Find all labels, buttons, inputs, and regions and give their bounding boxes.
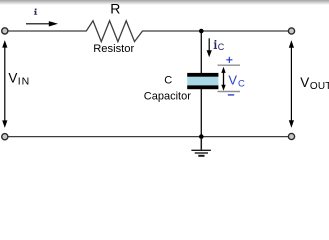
VC bracket bottom line [218, 91, 241, 93]
terminal output bottom [288, 133, 294, 139]
VC bracket top line [218, 64, 241, 66]
label VOUT [300, 75, 329, 92]
svg-text:V: V [228, 72, 237, 87]
measurement arrow VC [221, 67, 225, 91]
measurement arrow VIN [2, 40, 7, 128]
wire capacitor branch lower [200, 89, 202, 137]
minus sign [228, 94, 234, 96]
label VC [228, 72, 245, 89]
wire top rail with resistor R zigzag [8, 21, 288, 42]
svg-text:Resistor: Resistor [93, 43, 134, 55]
svg-text:OUT: OUT [310, 81, 329, 92]
node junction bottom [199, 134, 204, 139]
ground symbol [191, 138, 211, 156]
label VIN [8, 71, 30, 88]
svg-text:C: C [164, 75, 172, 87]
capacitor C dielectric fill [187, 77, 218, 86]
wire capacitor branch upper [200, 31, 202, 74]
svg-text:R: R [110, 0, 120, 16]
terminal input bottom [2, 134, 8, 140]
svg-text:C: C [238, 79, 245, 90]
top page border gradient bar [0, 0, 329, 5]
node junction top [199, 29, 204, 34]
current arrow i [26, 21, 58, 26]
current arrow iC [207, 38, 212, 57]
svg-text:V: V [300, 75, 309, 90]
svg-text:V: V [8, 71, 17, 86]
svg-text:C: C [218, 42, 225, 52]
label i [34, 9, 37, 15]
label iC [214, 40, 225, 52]
capacitor C top plate [187, 73, 218, 77]
svg-text:Capacitor: Capacitor [144, 91, 191, 103]
capacitor C bottom plate [187, 85, 218, 89]
terminal output top [288, 28, 294, 34]
wire bottom rail [8, 136, 288, 138]
svg-text:IN: IN [18, 75, 31, 87]
measurement arrow VOUT [289, 40, 294, 128]
terminal input top [2, 28, 8, 34]
plus sign [226, 57, 232, 63]
